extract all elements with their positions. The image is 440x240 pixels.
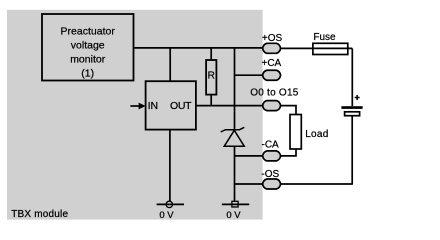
svg-text:voltage: voltage (71, 40, 105, 52)
svg-text:Fuse: Fuse (313, 32, 336, 43)
svg-text:-OS: -OS (261, 169, 279, 180)
terminal +OS (263, 43, 281, 53)
svg-text:(1): (1) (81, 68, 94, 80)
converter U2 IN/OUT box (146, 81, 196, 129)
wire +OS to fuse to battery top (281, 47, 353, 49)
svg-text:0 V: 0 V (159, 210, 174, 221)
svg-text:Load: Load (305, 129, 328, 140)
svg-text:R: R (208, 70, 215, 81)
box U1 Preactuator voltage monitor (42, 14, 134, 81)
svg-text:TBX module: TBX module (11, 209, 68, 220)
wire -OS to battery (281, 183, 353, 185)
svg-text:monitor: monitor (70, 54, 106, 66)
wire O0-O15 to load top (281, 106, 297, 115)
svg-text:Preactuator: Preactuator (61, 26, 116, 38)
svg-text:OUT: OUT (170, 100, 192, 112)
wire -CA branch (235, 155, 263, 157)
terminal O0 to O15 (263, 101, 281, 111)
wire battery negative lead down to -OS rail (351, 116, 353, 184)
ground 1 (0 V terminal under U2) (157, 201, 184, 207)
wire zener anode down to ground 2 (234, 146, 236, 201)
load RL (290, 115, 301, 150)
resistor R bottom lead (210, 95, 212, 106)
wire battery positive lead down (351, 48, 353, 106)
terminal +CA (263, 70, 281, 80)
svg-text:+OS: +OS (262, 33, 283, 44)
TBX module gray area (7, 10, 263, 220)
wire -OS branch (235, 183, 263, 185)
resistor R top lead (210, 48, 212, 60)
svg-text:+CA: +CA (262, 58, 282, 69)
wire U2 bottom lead to ground (169, 130, 171, 202)
battery BT1 (341, 95, 362, 116)
ground 2 (0 V terminal under zener) (222, 201, 249, 207)
terminal -OS (263, 179, 281, 189)
svg-text:IN: IN (148, 100, 159, 112)
arrow input to IN (130, 103, 145, 110)
zener diode D1 (221, 127, 245, 146)
wire load bottom to -CA (280, 149, 296, 156)
wire top rail y=48 from U1 to +OS terminal (134, 47, 263, 49)
wire drop to IN/OUT converter top (169, 48, 171, 81)
wire OUT rail y=105.6 to O0-O15 terminal (196, 105, 263, 107)
wire vertical branch x=234.5 from top rail to zener (234, 48, 236, 130)
wire +CA branch (235, 74, 263, 76)
terminal -CA (263, 151, 281, 161)
fuse F1 (313, 43, 348, 54)
svg-text:-CA: -CA (262, 140, 280, 151)
svg-text:0 V: 0 V (226, 210, 241, 221)
svg-text:O0 to O15: O0 to O15 (250, 88, 299, 99)
resistor R (206, 60, 216, 95)
